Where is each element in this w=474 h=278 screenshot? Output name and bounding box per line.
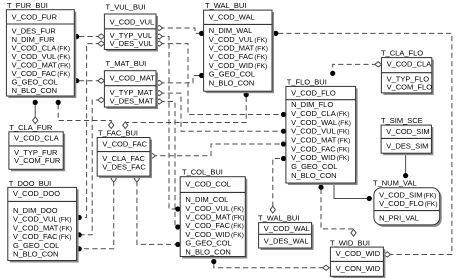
svg-text:G_GEO_COL: G_GEO_COL [209,70,255,79]
svg-text:V_COD_MAT(FK): V_COD_MAT(FK) [209,44,268,53]
entity T_NUM_VAL [373,178,442,227]
svg-text:N_BLO_CON: N_BLO_CON [185,247,230,256]
relationship T_FAC_BUI to T_COL_BUI [134,175,180,247]
svg-text:T_WAL_BUI: T_WAL_BUI [205,1,246,10]
entity T_DOO_BUI [8,179,79,263]
svg-text:V_COD_VUL(FK): V_COD_VUL(FK) [209,35,267,44]
svg-text:V_COD_DOO: V_COD_DOO [13,189,60,198]
svg-text:G_GEO_COL: G_GEO_COL [13,241,59,250]
svg-text:V_COD_FLO(FK): V_COD_FLO(FK) [379,199,437,208]
relationship T_FAC_BUI to T_WAL_BUI [123,92,249,129]
relationship T_WID_BUI to T_FLO_BUI [318,185,356,237]
relationship T_SIM_SCE to T_NUM_VAL [403,153,408,178]
svg-text:V_COD_FAC(FK): V_COD_FAC(FK) [185,221,243,230]
entity T_WID_BUI [330,238,385,278]
relationship T_MAT_BUI to T_DOO_BUI [77,97,105,237]
relationship T_VUL_BUI to T_DOO_BUI [77,41,105,220]
svg-text:V_COD_VUL: V_COD_VUL [110,17,155,26]
svg-text:N_DIM_DOO: N_DIM_DOO [13,206,58,215]
relationship T_WID_BUI to T_WAL_BUI [273,31,452,257]
relationship T_FAC_BUI to T_FUR_BUI [56,100,114,129]
relationship T_FLO_BUI to T_NUM_VAL [334,184,372,201]
svg-text:V_COD_FAC: V_COD_FAC [102,140,147,149]
svg-text:V_COD_VUL(FK): V_COD_VUL(FK) [291,127,349,136]
entity T_FUR_BUI [6,1,76,98]
svg-text:V_COD_WID(FK): V_COD_WID(FK) [185,230,243,239]
svg-text:V_COD_SIM: V_COD_SIM [386,127,429,136]
entity T_SIM_SCE [381,116,433,155]
relationship T_MAT_BUI to T_FUR_BUI [74,78,105,83]
entity T_WAL_BUI [258,213,314,250]
svg-text:T_CLA_FLO: T_CLA_FLO [381,48,423,57]
relationship T_VUL_BUI to T_WAL_BUI [156,25,204,36]
svg-text:V_COD_MAT(FK): V_COD_MAT(FK) [13,223,72,232]
svg-text:V_COD_WAL(FK): V_COD_WAL(FK) [291,118,351,127]
svg-text:V_COM_FUR: V_COM_FUR [14,156,61,165]
svg-text:V_COD_VUL(FK): V_COD_VUL(FK) [185,204,243,213]
svg-text:T_NUM_VAL: T_NUM_VAL [373,178,417,187]
entity T_FAC_BUI [97,128,152,178]
svg-text:V_TYP_MAT: V_TYP_MAT [110,88,154,97]
svg-text:T_DOO_BUI: T_DOO_BUI [9,179,52,188]
svg-text:V_COD_FAC(FK): V_COD_FAC(FK) [209,52,267,61]
svg-text:V_COD_FLO: V_COD_FLO [291,88,336,97]
relationship T_FAC_BUI to T_FLO_BUI [149,141,287,158]
relationship T_MAT_BUI to T_WAL_BUI [156,73,204,86]
svg-text:V_COD_FUR: V_COD_FUR [12,13,58,22]
svg-text:V_COD_FAC(FK): V_COD_FAC(FK) [291,144,349,153]
svg-text:T_CLA_FUR: T_CLA_FUR [9,123,53,132]
svg-text:V_COD_MAT: V_COD_MAT [110,74,156,83]
svg-text:N_DIM_WAL: N_DIM_WAL [209,26,252,35]
svg-text:V_COD_VUL(FK): V_COD_VUL(FK) [13,215,71,224]
svg-text:V_COD_WID(FK): V_COD_WID(FK) [209,61,267,70]
svg-text:N_BLO_CON: N_BLO_CON [12,86,57,95]
svg-text:V_COM_FLO: V_COM_FLO [387,83,433,92]
svg-text:T_FUR_BUI: T_FUR_BUI [7,1,48,10]
svg-text:N_DIM_COL: N_DIM_COL [185,195,228,204]
svg-text:V_COD_COL: V_COD_COL [185,179,230,188]
entity T_CLA_FUR [9,123,65,172]
svg-text:T_COL_BUI: T_COL_BUI [182,168,223,177]
svg-text:G_GEO_COL: G_GEO_COL [185,239,231,248]
svg-text:V_COD_CLA(FK): V_COD_CLA(FK) [291,109,349,118]
relationship T_FAC_BUI to T_DOO_BUI [77,175,117,251]
svg-text:V_COD_FAC(FK): V_COD_FAC(FK) [13,232,71,241]
relationship T_MAT_BUI to T_FLO_BUI [156,91,286,134]
entity T_WAL_BUI [204,1,274,93]
relationship T_MAT_BUI to T_COL_BUI [156,99,181,230]
svg-text:T_WAL_BUI: T_WAL_BUI [258,213,299,222]
svg-text:V_CON_WID: V_CON_WID [336,264,381,273]
relationship T_VUL_BUI to T_FLO_BUI [156,41,286,117]
entity T_VUL_BUI [104,3,158,52]
svg-text:N_BLO_CON: N_BLO_CON [209,78,254,87]
svg-text:V_COD_WAL: V_COD_WAL [209,12,255,21]
svg-text:T_FAC_BUI: T_FAC_BUI [98,128,138,137]
svg-text:V_COD_CLA: V_COD_CLA [14,134,59,143]
svg-text:V_DES_MAT: V_DES_MAT [110,97,154,106]
relationship T_VUL_BUI to T_FUR_BUI [74,34,105,39]
svg-text:N_BLO_CON: N_BLO_CON [291,171,336,180]
svg-text:V_COD_CLA: V_COD_CLA [387,60,432,69]
svg-text:V_COD_MAT(FK): V_COD_MAT(FK) [291,136,350,145]
svg-text:V_COD_WAL: V_COD_WAL [264,224,310,233]
relationship T_WID_BUI to T_COL_BUI [211,259,329,271]
relationship T_VUL_BUI to T_COL_BUI [156,34,181,212]
svg-text:T_VUL_BUI: T_VUL_BUI [106,3,146,12]
svg-text:G_GEO_COL: G_GEO_COL [291,162,337,171]
entity T_MAT_BUI [104,59,158,109]
svg-text:V_COD_WID: V_COD_WID [336,249,381,258]
svg-text:N_DIM_FLO: N_DIM_FLO [291,100,333,109]
svg-text:T_MAT_BUI: T_MAT_BUI [106,59,147,68]
entity T_FLO_BUI [286,78,358,185]
svg-text:N_PRI_VAL: N_PRI_VAL [379,213,419,222]
svg-text:N_BLO_CON: N_BLO_CON [13,250,58,259]
relationship T_CLA_FLO to T_FLO_BUI [330,62,382,76]
svg-text:T_WID_BUI: T_WID_BUI [330,238,370,247]
svg-text:V_DES_SIM: V_DES_SIM [386,142,428,151]
svg-text:V_COD_MAT(FK): V_COD_MAT(FK) [185,213,244,222]
svg-text:V_DES_VUL: V_DES_VUL [110,39,153,48]
entity T_CLA_FLO [381,48,434,94]
svg-text:V_COD_WID(FK): V_COD_WID(FK) [291,153,349,162]
svg-text:V_DES_FAC: V_DES_FAC [102,163,146,172]
relationship T_CLA_FUR to T_FUR_BUI [33,100,38,124]
svg-text:T_SIM_SCE: T_SIM_SCE [381,116,423,125]
relationship bottom T_WAL_BUI to T_FLO_BUI [270,156,286,213]
svg-text:T_FLO_BUI: T_FLO_BUI [287,78,327,87]
entity T_COL_BUI [180,168,247,259]
svg-text:V_DES_WAL: V_DES_WAL [264,236,309,245]
